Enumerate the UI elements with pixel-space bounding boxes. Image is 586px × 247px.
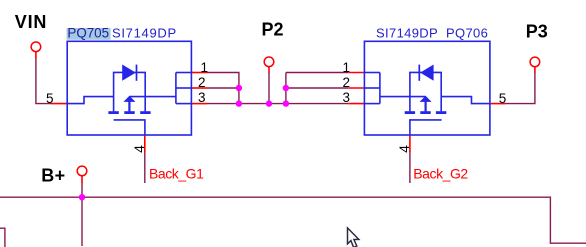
svg-text:P3: P3 bbox=[526, 22, 548, 42]
svg-text:P2: P2 bbox=[262, 20, 284, 40]
svg-text:SI7149DP: SI7149DP bbox=[112, 26, 177, 41]
svg-text:PQ705: PQ705 bbox=[67, 26, 109, 41]
svg-text:4: 4 bbox=[396, 145, 412, 153]
svg-text:4: 4 bbox=[131, 145, 147, 153]
svg-text:B+: B+ bbox=[41, 166, 66, 186]
svg-text:3: 3 bbox=[342, 90, 350, 105]
svg-text:1: 1 bbox=[342, 60, 350, 75]
svg-text:5: 5 bbox=[499, 91, 507, 106]
svg-text:2: 2 bbox=[198, 75, 206, 90]
svg-text:2: 2 bbox=[342, 75, 350, 90]
svg-text:Back_G2: Back_G2 bbox=[413, 165, 468, 181]
svg-text:VIN: VIN bbox=[15, 12, 47, 32]
svg-text:Back_G1: Back_G1 bbox=[149, 165, 204, 181]
svg-text:1: 1 bbox=[200, 60, 208, 75]
svg-text:3: 3 bbox=[198, 90, 206, 105]
svg-text:SI7149DP PQ706: SI7149DP PQ706 bbox=[376, 26, 488, 41]
svg-text:5: 5 bbox=[46, 91, 54, 106]
